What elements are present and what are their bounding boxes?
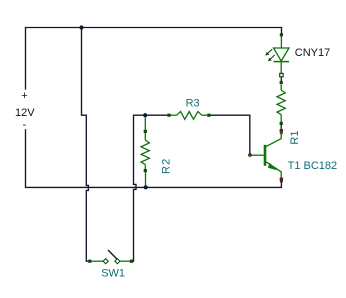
svg-text:R2: R2 bbox=[161, 158, 173, 174]
pin marker square R2 bottom bbox=[144, 169, 147, 172]
optocoupler LED CNY17 light arrow 1 bbox=[265, 49, 272, 55]
wire top rail from battery + to LED anode bbox=[26, 28, 282, 90]
svg-text:T1 BC182: T1 BC182 bbox=[288, 160, 338, 172]
switch SW1 left lead bbox=[89, 260, 103, 262]
resistor R3 body bbox=[170, 112, 208, 120]
node junction at top rail bbox=[79, 25, 83, 29]
resistor R1 body bbox=[277, 84, 285, 122]
wire R1 bottom to collector dark segment bbox=[280, 125, 282, 129]
optocoupler LED CNY17 cathode pin bbox=[280, 62, 282, 74]
wire bottom rail right segment to emitter bbox=[146, 181, 282, 187]
pin marker square SW1 left bbox=[88, 260, 91, 263]
pin marker square emitter maroon 2 bbox=[280, 180, 283, 182]
transistor T1 BC182 emitter pin bbox=[266, 162, 281, 178]
switch SW1 lever bbox=[108, 250, 118, 260]
wire R2 bottom pin to bottom rail bbox=[145, 172, 147, 186]
pin marker square R1 bottom bbox=[280, 122, 283, 125]
transistor T1 BC182 collector pin bbox=[266, 133, 281, 147]
optocoupler LED CNY17 anode pin bbox=[280, 35, 282, 48]
optocoupler LED CNY17 light arrow 2 bbox=[268, 55, 275, 61]
pin marker square collector top maroon bbox=[280, 129, 283, 132]
node junction mid row at R2 top bbox=[143, 113, 147, 117]
pin marker square LED anode bbox=[280, 33, 283, 36]
pin marker square R2 top bbox=[144, 130, 147, 133]
svg-text:R3: R3 bbox=[186, 97, 200, 109]
pin marker open square LED cathode bbox=[280, 73, 283, 76]
wire LED cathode to R1 dark segment bbox=[280, 77, 282, 82]
svg-text:+: + bbox=[21, 90, 27, 102]
svg-text:12V: 12V bbox=[15, 107, 35, 119]
svg-text:-: - bbox=[23, 119, 27, 131]
optocoupler LED CNY17 cathode bar bbox=[274, 61, 290, 63]
pin marker square emitter maroon bbox=[280, 178, 283, 181]
pin marker square SW1 right bbox=[130, 260, 133, 263]
pin marker square collector olive bbox=[280, 132, 283, 135]
svg-text:SW1: SW1 bbox=[101, 268, 125, 280]
wire R2 top pin to mid row junction bbox=[144, 116, 146, 130]
svg-text:R1: R1 bbox=[289, 131, 301, 145]
transistor T1 BC182 base pin bbox=[250, 154, 264, 156]
wire R3 right pin to transistor base bbox=[210, 115, 249, 153]
wire bottom rail middle segment bbox=[88, 186, 145, 188]
switch SW1 left contact diamond bbox=[103, 259, 108, 264]
optocoupler LED CNY17 triangle bbox=[274, 48, 290, 61]
wire mid row junction to R3 left pin bbox=[145, 114, 167, 116]
node junction at transistor base bbox=[248, 153, 252, 157]
switch SW1 right contact diamond bbox=[115, 259, 120, 264]
transistor T1 BC182 base bar bbox=[264, 145, 267, 166]
svg-text:CNY17: CNY17 bbox=[295, 47, 330, 59]
pin marker square R3 right bbox=[207, 114, 210, 117]
wire switch right to mid horizontal row bbox=[132, 115, 145, 261]
resistor R2 body bbox=[141, 133, 149, 170]
node junction bottom rail at R2 bottom bbox=[144, 185, 148, 189]
pin marker square R3 left bbox=[167, 114, 170, 117]
switch SW1 right lead bbox=[120, 260, 133, 262]
wire middle vertical from top junction to switch left bbox=[82, 28, 90, 262]
wire emitter pin to rail dark segment bbox=[280, 181, 282, 182]
pin marker square R1 top bbox=[280, 81, 283, 84]
transistor T1 BC182 emitter arrow bbox=[268, 163, 277, 171]
wire left battery negative to ground rail bbox=[26, 129, 89, 187]
